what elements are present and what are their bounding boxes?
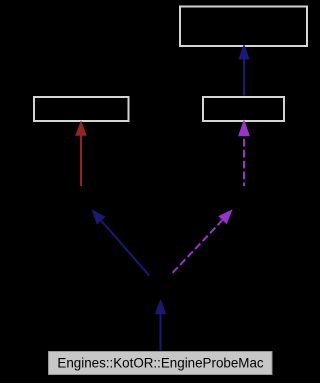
inheritance arrow blue: EngineProbeMac up to lower hidden node: [155, 299, 167, 351]
usage arrow purple dashed: hidden node up to middle-right box: [238, 119, 250, 186]
inheritance arrow blue diagonal: lower hidden node up-left to hidden node: [91, 209, 149, 275]
class box top-right (base class, label hidden): [180, 7, 307, 47]
svg-text:Engines::KotOR::EngineProbeMac: Engines::KotOR::EngineProbeMac: [57, 355, 263, 370]
inheritance arrow blue: middle-right box up to top-right box: [238, 44, 250, 96]
class box middle-left (label hidden): [34, 97, 129, 121]
class box Engines::KotOR::EngineProbeMac (current node, grey fill): [49, 352, 273, 375]
inheritance arrow red: hidden node up to middle-left box: [75, 120, 87, 186]
usage arrow purple dashed diagonal: lower hidden node up-right to hidden node: [173, 209, 233, 273]
class box middle-right (label hidden): [203, 97, 284, 121]
